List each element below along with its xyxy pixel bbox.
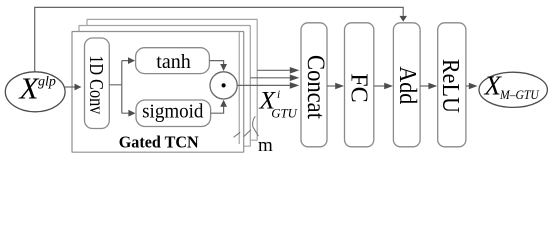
svg-text:glp: glp (38, 75, 56, 90)
svg-text:Add: Add (394, 66, 420, 104)
svg-text:tanh: tanh (156, 51, 191, 73)
svg-text:GTU: GTU (271, 107, 297, 121)
svg-text:m: m (258, 135, 273, 156)
svg-text:sigmoid: sigmoid (142, 102, 204, 123)
svg-text:X: X (18, 71, 40, 106)
svg-text:M–GTU: M–GTU (499, 88, 540, 102)
svg-text:Gated TCN: Gated TCN (119, 133, 200, 152)
svg-text:FC: FC (346, 73, 373, 103)
svg-text:i: i (277, 89, 280, 101)
svg-text:ReLU: ReLU (437, 59, 464, 113)
svg-text:1D Conv: 1D Conv (85, 55, 107, 114)
svg-text:Concat: Concat (302, 55, 329, 119)
